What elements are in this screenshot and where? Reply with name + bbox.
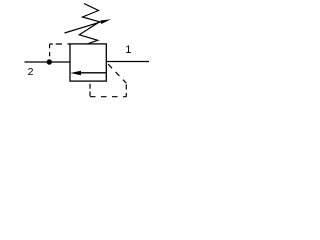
svg-text:2: 2 <box>28 66 34 78</box>
svg-text:1: 1 <box>125 44 131 56</box>
